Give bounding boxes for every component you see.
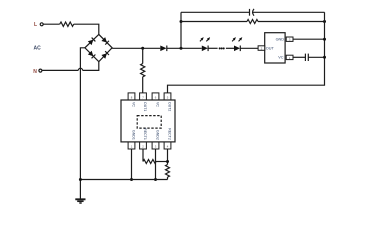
wire R3 rail left [181, 21, 247, 23]
capacitor C2 [304, 54, 306, 61]
svg-text:VC: VC [156, 102, 160, 107]
svg-text:OUT2: OUT2 [168, 102, 172, 111]
LED LED1 [202, 46, 208, 52]
diode D1 [160, 46, 166, 52]
wire U1 pin2 down [142, 149, 144, 162]
wire C2 to right rail [308, 56, 324, 58]
junction dot right rail R3 [323, 20, 326, 23]
svg-text:OUT1: OUT1 [143, 102, 147, 111]
junction dot VC rail [323, 56, 326, 59]
LED LED2 [234, 46, 240, 52]
resistor R1 [60, 22, 74, 26]
resistor R4 [143, 160, 156, 164]
junction dot at R2 tap [141, 47, 144, 50]
wire right rail vertical [168, 12, 325, 93]
wire snubber left vertical [180, 12, 182, 48]
wire R3 rail right [258, 21, 325, 23]
U2 pad pin1 VC [286, 55, 293, 59]
svg-text:OUT: OUT [266, 46, 275, 50]
junction dot R4/R5 node [166, 160, 169, 163]
wire R2 to U1 pin2 [142, 77, 144, 93]
wire R5 to ground rail [167, 177, 169, 179]
bridge diode D-d (bottom to right) [101, 51, 109, 59]
wire U2 VC to C2 [293, 56, 305, 58]
svg-text:GND2: GND2 [156, 130, 160, 140]
svg-text:VC: VC [132, 102, 136, 107]
wire bridge left vertex to ground rail [80, 48, 85, 199]
svg-text:RECT2: RECT2 [168, 128, 172, 140]
wire R2 tap down [142, 48, 144, 63]
wire L to R1 [43, 23, 60, 25]
junction dot pin1 ground [130, 178, 133, 181]
LED1 emission arrows [199, 36, 205, 42]
svg-text:L: L [34, 22, 37, 28]
svg-text:GND: GND [276, 37, 285, 41]
U1 pad pin7 top [140, 93, 147, 100]
U1 pad pin5 top [164, 93, 171, 100]
wire dots to LED2 [226, 47, 234, 49]
svg-text:GND1: GND1 [132, 130, 136, 140]
ellipsis dots in LED string [219, 47, 221, 49]
bridge diode D-c (left to bottom) [88, 51, 96, 59]
wire ground rail bottom [80, 179, 167, 181]
wire LED2 to U2 OUT pad [240, 47, 258, 49]
terminal L [40, 23, 43, 26]
U1 pad pin3 bottom [152, 142, 159, 149]
bridge rectifier BD1 diamond [85, 34, 112, 61]
U1 pad pin1 bottom [128, 142, 135, 149]
wire U1 pin1 to ground rail [131, 149, 133, 180]
U1 pad pin6 top [152, 93, 159, 100]
junction dot left rail R3 [180, 20, 183, 23]
svg-text:N: N [33, 69, 37, 75]
wire top rail left of C1 [181, 11, 250, 13]
LED2 emission arrows [231, 36, 237, 42]
svg-text:RECT1: RECT1 [143, 128, 147, 140]
junction dot at snubber tap [180, 47, 183, 50]
resistor R5 [166, 165, 170, 178]
wire U2 GND to right rail [293, 38, 325, 40]
ground symbol [75, 198, 85, 200]
U1 pad pin8 top [128, 93, 135, 100]
terminal N [39, 69, 42, 72]
wire U1 pin4 down [167, 149, 169, 165]
U2 pad pin2 OUT [258, 46, 265, 51]
U1 pad pin2 bottom [140, 142, 147, 149]
junction dot pin3 ground [154, 178, 157, 181]
U2 pad pin3 GND [286, 37, 293, 41]
U1 dashed thermal pad [137, 116, 161, 129]
wire R4 to pin4 leg [156, 161, 168, 163]
resistor R3 [247, 20, 258, 24]
wire top rail right of C1 [252, 11, 324, 13]
wire LED1 to dots [208, 47, 218, 49]
bridge diode D-b (top to right) [101, 37, 109, 45]
junction dot ground rail left [79, 178, 82, 181]
wire hop over ground rail [78, 68, 82, 70]
wire D1 to LED1 [167, 47, 202, 49]
svg-text:AC: AC [34, 46, 42, 52]
wire U1 pin3 to ground rail [155, 149, 157, 180]
junction dot GND rail [323, 38, 326, 41]
IC U2 box [265, 33, 285, 63]
capacitor C1 [249, 9, 251, 16]
wire R1 to bridge top [74, 24, 99, 34]
bridge diode D-a (left to top) [88, 38, 96, 46]
wire DC+ line bridge to junction [112, 47, 160, 49]
IC U1 box [121, 100, 175, 142]
resistor R2 [141, 64, 145, 77]
wire N to bridge bottom [42, 69, 78, 71]
U1 pad pin4 bottom [164, 142, 171, 149]
svg-text:VC: VC [278, 56, 284, 60]
